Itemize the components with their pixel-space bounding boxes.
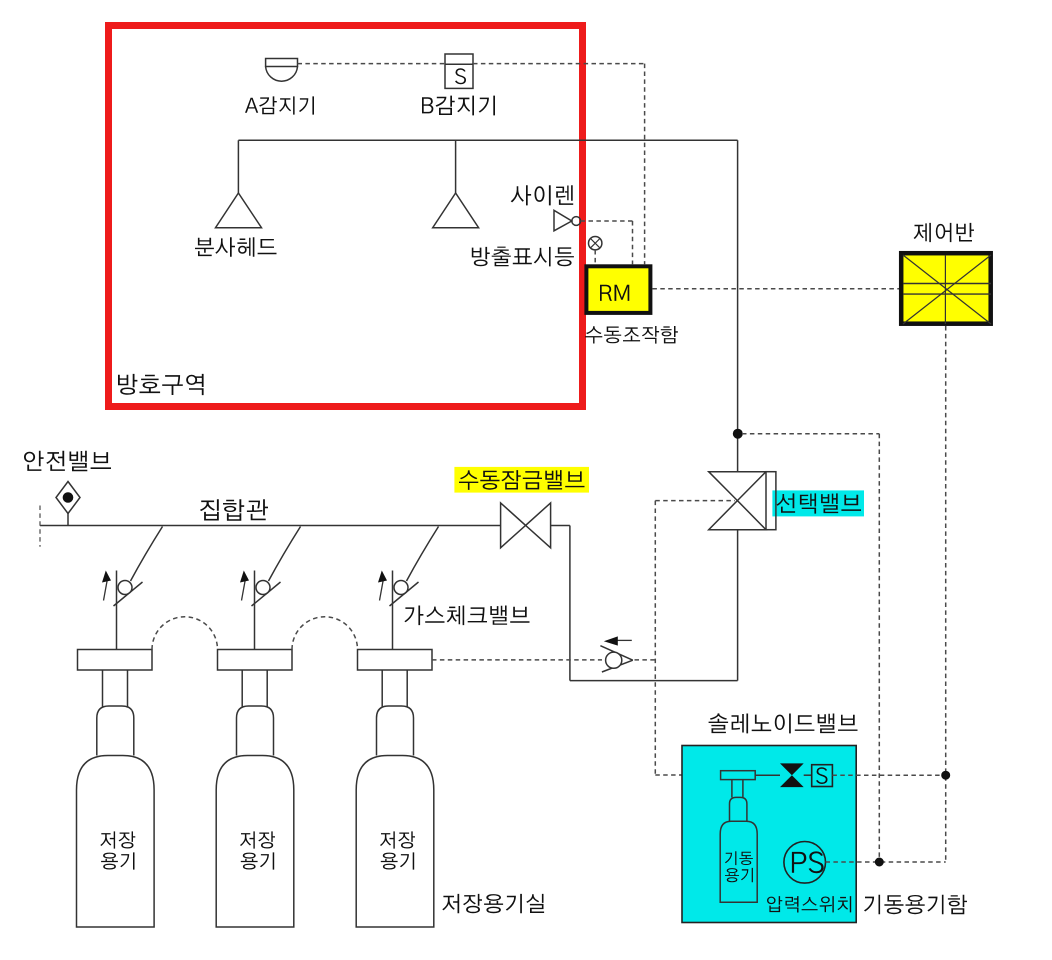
manual lock valve symbol (bowtie) xyxy=(501,503,551,548)
gas check valve symbol 3 (ball with arrow) xyxy=(378,527,439,650)
solenoid valve symbol (filled bowtie) xyxy=(780,763,804,787)
storage cylinder body 3 (저장용기) xyxy=(356,756,434,928)
junction dot PS wire xyxy=(875,858,883,866)
cylinder valve flange 1 xyxy=(78,650,153,671)
label 기동용기함 xyxy=(864,895,967,915)
dashed wire lamp to RM xyxy=(594,250,596,264)
pipe solenoid to S box xyxy=(804,774,812,776)
label A감지기 xyxy=(245,96,314,114)
manifold end cap xyxy=(39,506,41,547)
cylinder neck 1 xyxy=(97,670,134,756)
detector loop dashed wire xyxy=(298,63,645,65)
gas check valve symbol 2 (ball with arrow) xyxy=(240,527,301,650)
pipe drop to spray head 1 xyxy=(237,140,239,193)
manifold pipe (집합관) xyxy=(40,525,501,527)
dashed wire detector loop down to RM xyxy=(644,64,646,265)
dashed wire control panel down to starting box xyxy=(945,326,947,862)
cylinder valve flange 2 xyxy=(218,650,293,671)
cylinder neck 2 xyxy=(237,670,274,756)
junction dot S wire / panel wire xyxy=(942,771,950,779)
pipe from manifold down to selection valve xyxy=(737,140,739,471)
starting container neck xyxy=(730,780,747,822)
dashed loop arc between cylinder 1 and 2 xyxy=(152,617,218,650)
detector B box symbol with S xyxy=(445,54,473,88)
dashed loop arc between cylinder 2 and 3 xyxy=(292,617,358,650)
label 가스체크밸브 xyxy=(404,606,529,626)
label 압력스위치 xyxy=(767,896,851,912)
piping main horizontal run xyxy=(238,139,737,141)
label B감지기 xyxy=(422,96,495,116)
label 안전밸브 xyxy=(24,451,111,471)
dashed wire PS to panel drop xyxy=(826,861,946,863)
label 수동조작함 xyxy=(585,326,678,344)
cylinder neck 3 xyxy=(377,670,414,756)
storage cylinder body 1 (저장용기) xyxy=(77,756,155,928)
spray head 2 xyxy=(433,193,479,228)
starting container flange xyxy=(721,771,756,780)
label 수동잠금밸브 yellow highlight xyxy=(454,467,589,493)
pipe flange to solenoid valve xyxy=(755,774,780,776)
starting container body (기동용기) xyxy=(720,821,757,902)
pilot check valve symbol (left arrow) xyxy=(600,636,632,672)
label 솔레노이드밸브 xyxy=(709,713,858,733)
dashed pilot line corner to solenoid flange xyxy=(655,501,735,775)
junction node dot xyxy=(733,429,742,438)
label 집합관 xyxy=(200,499,268,521)
cylinder valve flange 3 xyxy=(358,650,433,671)
dashed wire siren to RM xyxy=(581,221,633,264)
label 분사헤드 xyxy=(195,237,277,256)
label 저장용기 1 xyxy=(100,831,135,869)
detector A dome symbol xyxy=(266,59,298,82)
label 저장용기실 xyxy=(442,894,544,913)
protected zone boundary red box (방호구역) xyxy=(109,26,583,407)
dashed pilot line from cylinder flange 3 xyxy=(432,659,655,661)
dashed wire node to right drop xyxy=(742,434,879,862)
control panel box xyxy=(901,253,991,324)
label 기동용기 small xyxy=(725,851,753,882)
label 제어반 xyxy=(914,223,974,242)
pipe drop to spray head 2 xyxy=(455,140,457,193)
starting container box (기동용기함 cyan) xyxy=(682,746,856,923)
label 사이렌 xyxy=(511,185,574,205)
solenoid S box xyxy=(812,765,833,787)
label 저장용기 2 xyxy=(240,831,275,869)
gas check valve symbol 1 (ball with arrow) xyxy=(102,527,163,650)
discharge indicator lamp symbol (circle-X) xyxy=(589,237,602,250)
manual operation box RM xyxy=(586,266,650,313)
pressure switch symbol PS xyxy=(784,842,826,884)
storage cylinder body 2 (저장용기) xyxy=(216,756,294,928)
pipe manual valve to drop xyxy=(551,525,570,527)
label 저장용기 3 xyxy=(380,831,415,869)
siren symbol xyxy=(554,210,581,231)
selection valve symbol xyxy=(709,472,776,530)
label 방호구역 xyxy=(118,374,204,395)
label 선택밸브 cyan highlight xyxy=(772,490,864,516)
spray head 1 (분사헤드) xyxy=(216,193,262,228)
pipe selection valve down-left to manual valve xyxy=(570,526,738,681)
dashed wire RM to control panel xyxy=(652,288,899,290)
label 방출표시등 xyxy=(472,247,574,267)
safety valve symbol (diamond with dot) xyxy=(56,482,80,526)
dashed wire S box to control panel line xyxy=(832,774,945,776)
